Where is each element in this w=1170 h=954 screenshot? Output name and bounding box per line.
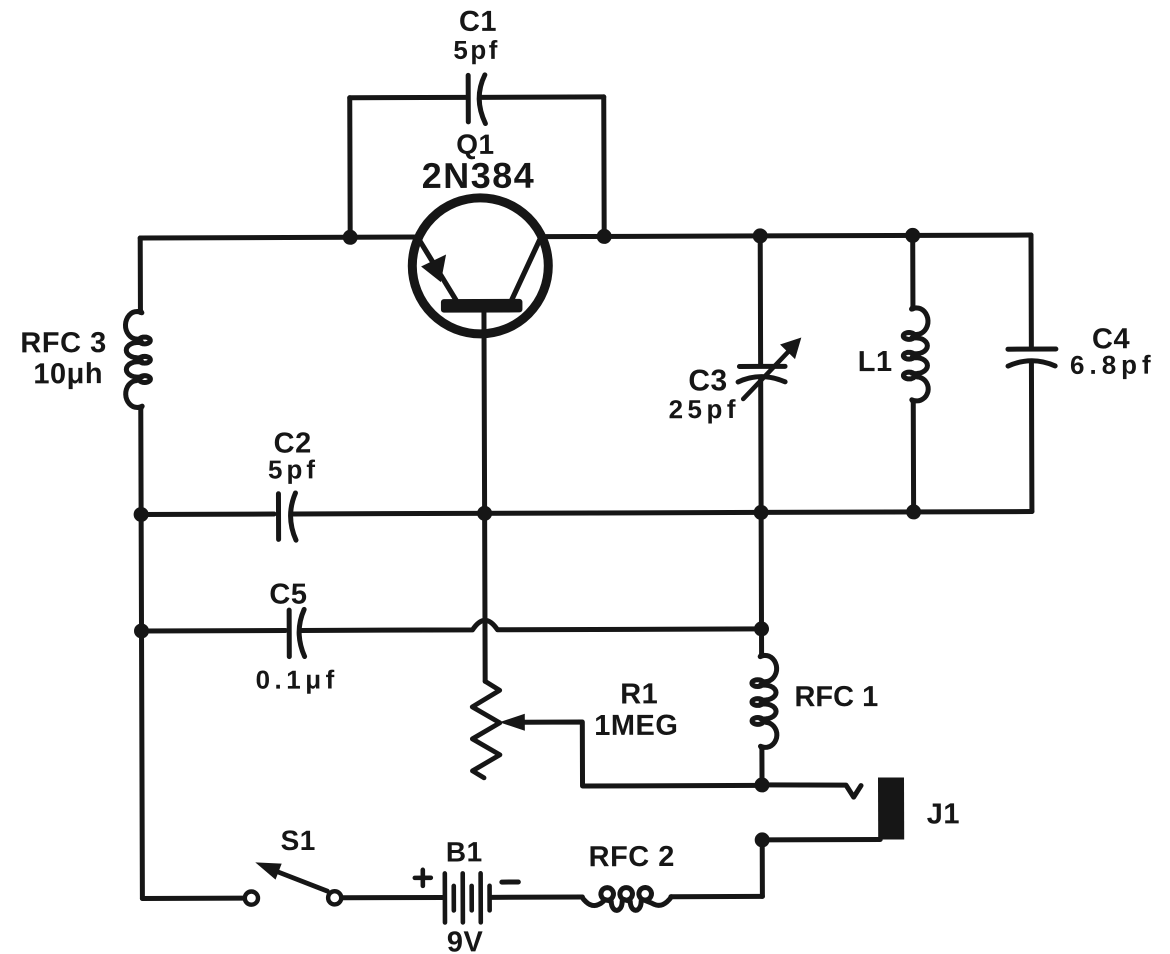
wire: left vertical upper (top rail to RFC 3) bbox=[138, 238, 143, 312]
svg-text:B1: B1 bbox=[446, 836, 483, 867]
switch S1 right contact bbox=[328, 891, 341, 904]
svg-text:C1: C1 bbox=[459, 6, 497, 38]
capacitor C2 bbox=[278, 493, 296, 540]
capacitor C3 (variable) bbox=[738, 337, 802, 399]
svg-text:5pf: 5pf bbox=[453, 35, 500, 65]
svg-text:9V: 9V bbox=[447, 926, 484, 954]
wire: C3 branch upper bbox=[758, 236, 763, 364]
wire: RFC 1 bottom stub bbox=[759, 747, 764, 784]
wire: C3 branch lower bbox=[758, 379, 763, 512]
wire: C1 top rail right segment bbox=[481, 94, 604, 99]
wire: C1 top rail left segment bbox=[350, 95, 466, 100]
wire: bottom rail B1 to RFC 2 bbox=[491, 895, 582, 900]
wire: RFC 1 top stub bbox=[759, 629, 764, 655]
wire: bottom rail RFC 2 to corner bbox=[671, 894, 762, 899]
switch S1 arm bbox=[269, 868, 327, 891]
junction dot middle rail / base wire bbox=[477, 506, 492, 521]
wire: C1 top loop right vertical bbox=[601, 97, 606, 234]
junction dot C5 rail left bbox=[134, 623, 149, 638]
inductor L1 bbox=[903, 307, 928, 402]
junction dot C5 rail / RFC1 bbox=[754, 621, 769, 636]
wire: L1 branch upper stub bbox=[910, 235, 915, 308]
wire: R1 wiper arm to RFC1 bottom junction bbox=[523, 721, 762, 786]
junction dot top rail / C3 bbox=[753, 228, 768, 243]
junction dot middle rail / C3 bbox=[754, 505, 769, 520]
svg-text:RFC 2: RFC 2 bbox=[589, 841, 675, 873]
svg-text:L1: L1 bbox=[858, 346, 893, 378]
wire: RFC1 junction to J1 tip contact bbox=[762, 785, 861, 798]
svg-text:RFC 1: RFC 1 bbox=[794, 681, 878, 713]
capacitor C1 bbox=[468, 75, 485, 124]
svg-text:5pf: 5pf bbox=[268, 454, 319, 484]
capacitor C5 bbox=[289, 609, 304, 656]
junction dot RFC1 bottom / wiper wire bbox=[754, 777, 769, 792]
wire: lower junction down to bottom rail bbox=[760, 840, 765, 896]
svg-text:6.8pf: 6.8pf bbox=[1070, 350, 1156, 380]
capacitor C4 bbox=[1008, 349, 1056, 366]
wire: left vertical lower (RFC 3 to bottom rail) bbox=[141, 407, 143, 898]
potentiometer R1 wiper arrowhead bbox=[499, 714, 525, 731]
svg-text:S1: S1 bbox=[281, 825, 316, 856]
wire: C3/RFC1 vertical (middle rail to C5 rail) bbox=[759, 512, 764, 628]
wire: bottom rail S1 to B1 bbox=[341, 895, 442, 900]
svg-text:10μh: 10μh bbox=[33, 358, 103, 390]
wire: middle rail right of C2 bbox=[292, 512, 1032, 514]
wire: right vertical lower (C4 to middle rail) bbox=[1029, 364, 1034, 512]
svg-text:RFC 3: RFC 3 bbox=[20, 327, 106, 359]
svg-text:R1: R1 bbox=[620, 678, 658, 710]
switch S1 left contact bbox=[245, 891, 258, 904]
svg-text:C3: C3 bbox=[688, 364, 727, 397]
battery B1 plus sign bbox=[415, 870, 431, 886]
wire: right vertical upper (to C4) bbox=[1029, 235, 1034, 347]
transistor Q1 bbox=[412, 198, 548, 334]
svg-text:C5: C5 bbox=[269, 579, 307, 611]
wire: top rail left of Q1 bbox=[140, 235, 420, 241]
switch S1 arm arrowhead bbox=[255, 862, 281, 879]
battery B1 minus sign bbox=[502, 880, 518, 885]
junction dot middle rail left bbox=[134, 507, 149, 522]
svg-text:2N384: 2N384 bbox=[422, 155, 536, 196]
battery B1 bbox=[445, 873, 490, 922]
junction dot J1 sleeve corner bbox=[755, 832, 770, 847]
svg-text:J1: J1 bbox=[927, 798, 960, 830]
inductor RFC1 bbox=[752, 654, 777, 748]
junction dot middle rail / L1 bbox=[906, 504, 921, 519]
junction dot top rail / C1 left bbox=[343, 230, 358, 245]
junction dot top rail / L1 bbox=[905, 228, 920, 243]
svg-text:0.1μf: 0.1μf bbox=[256, 664, 339, 694]
jack J1 body bbox=[878, 777, 904, 839]
svg-text:25pf: 25pf bbox=[668, 394, 740, 424]
wire: C1 top loop left vertical bbox=[347, 98, 352, 235]
wire: bottom rail left segment bbox=[142, 896, 244, 901]
inductor RFC3 bbox=[125, 310, 150, 408]
wire: middle rail left of C2 bbox=[141, 512, 274, 517]
junction dot top rail / C1 right bbox=[597, 229, 612, 244]
wire: top rail right of Q1 bbox=[540, 235, 1031, 237]
potentiometer R1 element bbox=[472, 681, 500, 778]
svg-text:1MEG: 1MEG bbox=[594, 710, 678, 742]
wire: C5 rail right of C5 with hop over base wire bbox=[300, 619, 761, 630]
inductor RFC2 bbox=[582, 887, 672, 910]
wire: Q1 base lead down to R1 bbox=[484, 312, 485, 681]
wire: L1 branch lower stub bbox=[911, 401, 916, 512]
wire: C5 rail left of C5 bbox=[142, 628, 286, 633]
wire: J1 sleeve to lower junction bbox=[762, 837, 880, 842]
